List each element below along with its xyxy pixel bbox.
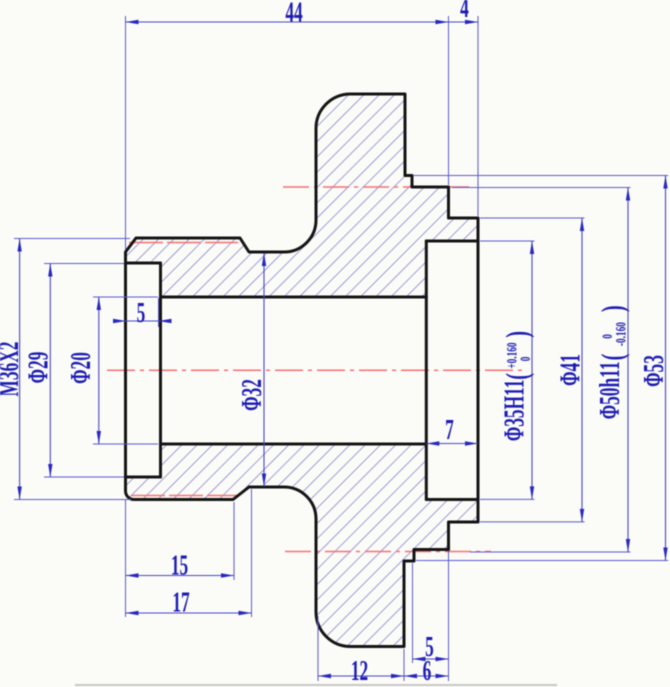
svg-text:15: 15 <box>171 550 188 581</box>
svg-text:7: 7 <box>445 415 454 446</box>
svg-text:4: 4 <box>460 0 469 24</box>
svg-text:Φ29: Φ29 <box>23 352 54 384</box>
dimension 44 <box>126 0 449 250</box>
dimension 5 (counterbore depth, left) <box>113 298 172 329</box>
thread root line top <box>129 242 238 244</box>
svg-text:M36X2: M36X2 <box>0 342 25 397</box>
dimension 7 (counterbore depth, right) <box>426 415 478 446</box>
hatched cross-section lower half <box>126 444 479 647</box>
svg-text:Φ20: Φ20 <box>66 352 97 384</box>
svg-text:17: 17 <box>172 587 190 618</box>
dimension 4 <box>449 0 479 216</box>
svg-text:5: 5 <box>425 632 434 663</box>
svg-text:): ) <box>594 305 630 312</box>
dimension phi50h11 <box>452 188 631 553</box>
dimension 12 (flange width) <box>318 616 449 687</box>
svg-text:Φ41: Φ41 <box>555 354 586 386</box>
phi20 bore top edge <box>161 296 427 299</box>
svg-text:Φ50h11: Φ50h11 <box>595 362 626 420</box>
svg-text:(: ( <box>594 354 630 361</box>
svg-text:Φ53: Φ53 <box>639 355 670 387</box>
phi35 counterbore bottom face <box>425 241 428 500</box>
bore phi29 counterbore bottom edge <box>126 476 161 479</box>
svg-text:12: 12 <box>351 656 368 687</box>
svg-text:): ) <box>499 331 535 338</box>
hatched cross-section upper half <box>126 94 479 297</box>
svg-text:+0.160: +0.160 <box>503 342 520 368</box>
part outer profile <box>126 94 479 647</box>
dimension phi41 <box>480 218 587 522</box>
dimension phi32 (thread relief groove) <box>237 253 268 487</box>
upper bolt-circle centerline <box>283 186 470 188</box>
phi29 counterbore bottom face <box>159 263 162 477</box>
bore phi29 counterbore top edge <box>126 262 161 265</box>
dimension phi53 <box>413 176 670 561</box>
svg-text:Φ32: Φ32 <box>237 379 268 411</box>
lower bolt-circle centerline <box>285 551 491 553</box>
svg-text:44: 44 <box>285 0 303 29</box>
main axis centerline (red dash-dot) <box>107 369 526 371</box>
svg-text:-0.160: -0.160 <box>612 322 629 346</box>
thread root line bottom <box>131 495 238 497</box>
scan artifact bottom <box>75 684 557 686</box>
svg-text:0: 0 <box>517 357 534 362</box>
dimension 6 <box>404 551 449 687</box>
dimension phi35H11 <box>480 241 535 499</box>
dimension phi20 <box>66 297 158 444</box>
dimension 15 <box>126 502 235 582</box>
svg-text:(: ( <box>499 373 535 380</box>
phi35 counterbore bottom edge <box>426 498 478 501</box>
phi35 counterbore top edge <box>426 240 478 243</box>
dimension 17 <box>126 489 252 619</box>
dimension M36X2 <box>0 239 131 500</box>
svg-text:Φ35H11: Φ35H11 <box>499 380 530 442</box>
phi20 bore bottom edge <box>161 443 427 446</box>
svg-text:5: 5 <box>137 298 146 329</box>
dimension 5 (collar width, bottom right) <box>413 563 449 663</box>
dimension phi29 <box>23 264 124 478</box>
